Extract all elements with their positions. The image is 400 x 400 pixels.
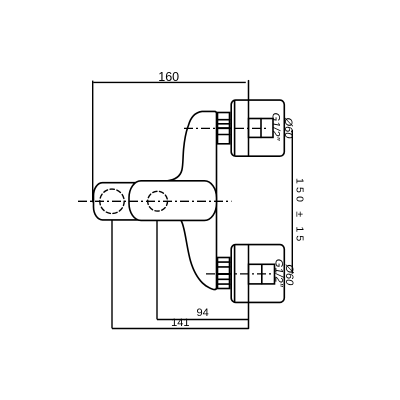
svg-text:G1/2″: G1/2″ [270,113,282,142]
svg-text:150 ± 15: 150 ± 15 [294,178,306,244]
wire wall-face line through bottom plate down to dimension [248,245,250,329]
svg-text:160: 160 [158,70,179,84]
svg-text:141: 141 [171,317,189,329]
node bottom pipe centerline (dash-dot) [206,273,274,275]
node top escutcheon plate [231,100,284,156]
node top union nut [218,113,230,144]
svg-text:94: 94 [196,307,208,319]
wire wall-face line through top plate [248,81,250,157]
wire dim 94 line [157,319,249,321]
node bottom inlet pipe [249,264,275,284]
node hidden circle right (dashed) [148,191,168,211]
wire dim 141 extension [111,220,113,329]
node top pipe centerline (dash-dot) [184,127,269,129]
node body housing (large stadium) [129,181,217,221]
svg-text:Ø60: Ø60 [282,117,294,140]
node valve cap (small stadium, left) [94,183,149,220]
wire dim 94 extension [156,221,158,320]
wire faucet vertical arm (upper S-bend and lower S-bend, behind body) [167,111,217,289]
wire dim 160 line [94,81,246,83]
wire dim 160 extension left [92,81,94,203]
wire dim 141 line [112,328,249,330]
svg-text:G1/2″: G1/2″ [272,259,284,288]
wire dim 150 line [291,130,293,274]
node bottom union nut [218,258,230,289]
node top inlet pipe [249,119,274,138]
svg-text:Ø60: Ø60 [283,263,295,286]
node bottom escutcheon plate [231,245,284,303]
node body centerline (dash-dot) [78,200,232,202]
node hidden circle left (dashed) [100,189,124,213]
